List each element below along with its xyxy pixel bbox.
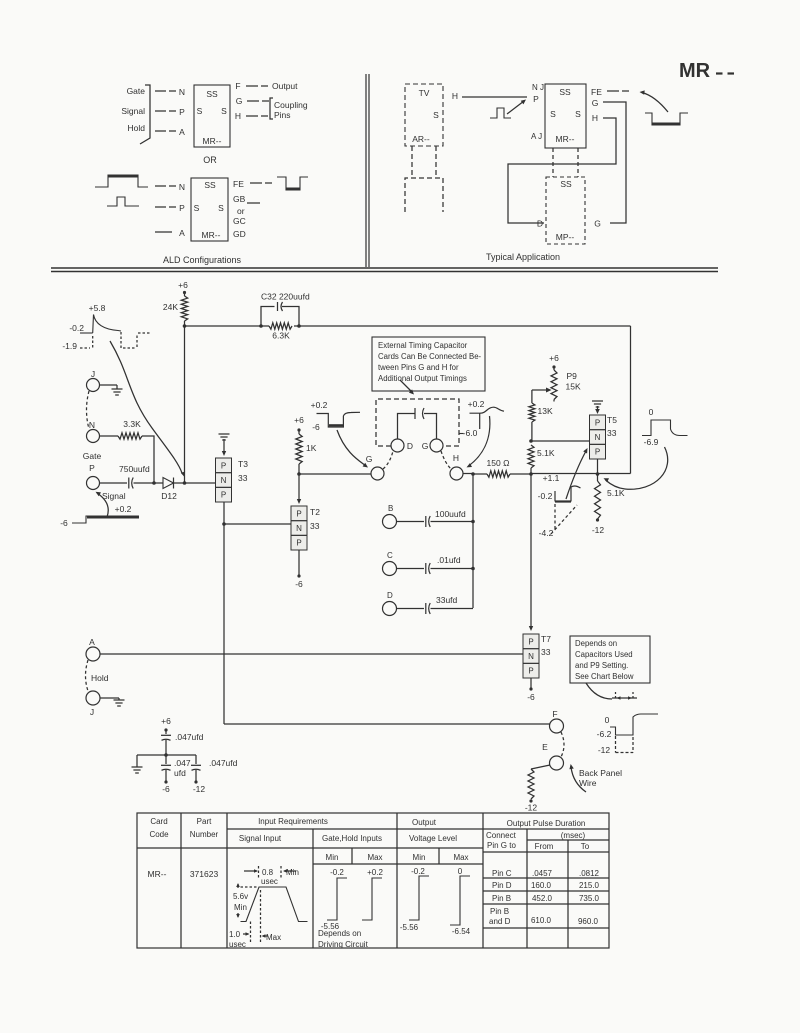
label Output (272, 81, 298, 91)
wire G to MP (603, 102, 626, 223)
svg-text:+5.8: +5.8 (89, 303, 106, 313)
svg-text:Input Requirements: Input Requirements (258, 817, 328, 826)
dashed link G to D (383, 451, 393, 469)
capacitor external (398, 408, 437, 439)
svg-text:33: 33 (541, 647, 551, 657)
pin F label (235, 81, 240, 91)
arrow into T2 (297, 474, 301, 504)
svg-text:From: From (535, 842, 554, 851)
svg-text:-6.54: -6.54 (452, 927, 471, 936)
svg-text:Signal: Signal (121, 106, 145, 116)
header from (535, 842, 554, 851)
wire dashes P1 (155, 110, 176, 112)
junction 150 node (529, 472, 533, 476)
svg-text:D: D (537, 219, 543, 229)
svg-text:T2: T2 (310, 507, 320, 517)
svg-text:AR--: AR-- (412, 134, 430, 144)
svg-text:MR--: MR-- (202, 230, 221, 240)
junction dot C32 right (297, 324, 301, 328)
svg-text:B: B (388, 504, 393, 513)
label OR (203, 155, 217, 165)
wire N to 3.3K (100, 435, 119, 437)
svg-text:FE: FE (591, 87, 602, 97)
pin D ext (391, 439, 413, 452)
svg-text:+6: +6 (549, 353, 559, 363)
svg-text:To: To (581, 842, 590, 851)
wire P to cap (100, 482, 128, 484)
header to (581, 842, 590, 851)
junction dot C32 left (259, 324, 263, 328)
svg-text:-0.2: -0.2 (411, 867, 425, 876)
header output (412, 818, 437, 827)
header connect pin g (486, 831, 517, 850)
dashed link A-J (86, 660, 89, 691)
wire dashes A1 (155, 130, 176, 132)
svg-text:6.3K: 6.3K (272, 331, 290, 341)
pin A label 2 (179, 228, 185, 238)
svg-text:15K: 15K (566, 382, 581, 392)
ground caps (132, 755, 143, 773)
svg-text:S: S (197, 106, 203, 116)
svg-text:.047: .047 (174, 758, 191, 768)
svg-text:-6: -6 (162, 784, 170, 794)
resistor 24K (163, 293, 188, 327)
svg-text:Part: Part (197, 817, 212, 826)
svg-text:C32 220uufd: C32 220uufd (261, 292, 310, 302)
block MP dashed box (546, 177, 585, 244)
svg-text:SS: SS (206, 89, 218, 99)
wire dashes N2 (155, 185, 176, 187)
capacitor C .01ufd (426, 555, 461, 574)
svg-text:P: P (221, 491, 226, 500)
waveform FE output pulse (277, 177, 308, 190)
svg-text:usec: usec (229, 940, 246, 949)
header gate hold inputs (322, 834, 382, 843)
pin J hold (86, 691, 100, 717)
svg-text:Depends on: Depends on (318, 929, 361, 938)
svg-text:A J: A J (531, 132, 542, 141)
resistor 150 ohm (473, 458, 531, 477)
label ALD Configurations (163, 255, 242, 265)
svg-text:Coupling: Coupling (274, 100, 308, 110)
svg-text:Min: Min (286, 868, 299, 877)
svg-text:-12: -12 (592, 525, 605, 535)
power +6 P9 (549, 353, 559, 369)
pin J (87, 369, 100, 392)
svg-text:tween Pins G and H for: tween Pins G and H for (378, 363, 459, 372)
pin GB label (233, 194, 246, 204)
wire T5 output rail (531, 473, 631, 475)
svg-text:Output: Output (272, 81, 298, 91)
wire dashes FE (250, 182, 272, 184)
capacitor .047 right (191, 755, 238, 794)
svg-text:T7: T7 (541, 634, 551, 644)
svg-text:H: H (592, 113, 598, 123)
waveform T5 out pulse (642, 407, 688, 447)
svg-text:TV: TV (419, 88, 430, 98)
wire cap to junction (134, 481, 162, 485)
svg-text:S: S (194, 203, 200, 213)
header min out (413, 853, 426, 862)
svg-text:G: G (366, 454, 373, 464)
svg-text:SS: SS (560, 179, 572, 189)
svg-text:.0457: .0457 (532, 869, 553, 878)
svg-text:Code: Code (149, 830, 169, 839)
arrow FE wave to pin (640, 90, 669, 112)
svg-text:-6.0: -6.0 (463, 428, 478, 438)
wire 24K down to diode node (183, 324, 187, 483)
svg-text:N: N (179, 87, 185, 97)
svg-text:P: P (595, 448, 600, 457)
dashed link F-E back panel (561, 732, 564, 757)
svg-text:Card: Card (150, 817, 167, 826)
svg-text:371623: 371623 (190, 869, 219, 879)
section divider horizontal double line (51, 268, 718, 272)
arrow signal to P (96, 492, 109, 517)
arrow spike to diode node (110, 341, 185, 477)
wire 1K node to G (299, 473, 371, 475)
resistor P9 tail (553, 400, 555, 402)
capacitor D 33ufd (426, 595, 458, 614)
svg-text:G: G (236, 96, 243, 106)
svg-text:See Chart Below: See Chart Below (575, 672, 634, 681)
junction H node (463, 472, 475, 476)
svg-text:Depends on: Depends on (575, 639, 617, 648)
svg-text:D: D (387, 591, 393, 600)
pin F (550, 709, 564, 733)
svg-text:J: J (91, 369, 95, 379)
svg-text:Gate: Gate (83, 451, 102, 461)
svg-text:S: S (550, 109, 556, 119)
svg-text:960.0: 960.0 (578, 917, 599, 926)
cell pin c row (492, 869, 600, 878)
wire capB to vertical (431, 520, 475, 524)
svg-text:S: S (433, 110, 439, 120)
pin E (542, 742, 563, 770)
wire BCD vertical (472, 474, 474, 608)
cell pin b and d row (489, 907, 599, 926)
pointer note to measure (586, 683, 612, 699)
arrow wave to H (467, 416, 490, 467)
waveform gate spike (62, 303, 151, 351)
svg-text:C: C (387, 551, 393, 560)
section divider vertical line (366, 74, 369, 267)
waveform T5 base step (538, 473, 581, 538)
pin A (86, 637, 100, 661)
transistor T3 (216, 458, 249, 502)
svg-text:-6.2: -6.2 (597, 729, 612, 739)
svg-text:Typical Application: Typical Application (486, 252, 560, 262)
svg-text:N: N (595, 433, 601, 442)
pin N label (179, 87, 185, 97)
svg-text:P9: P9 (567, 371, 578, 381)
arrow back panel (569, 764, 586, 792)
waveform N input pulse (95, 175, 148, 187)
wire dashes P2 (155, 206, 176, 208)
capacitor 750uufd (129, 478, 133, 489)
coupling pins bracket (270, 98, 273, 119)
svg-text:13K: 13K (538, 406, 553, 416)
svg-text:N: N (179, 182, 185, 192)
title MR-- (679, 60, 734, 82)
table waveform gate min (321, 868, 347, 931)
svg-text:H: H (235, 111, 241, 121)
pin H label app (452, 91, 458, 101)
svg-text:S: S (218, 203, 224, 213)
svg-text:Voltage Level: Voltage Level (409, 834, 457, 843)
svg-text:-12: -12 (525, 803, 538, 813)
dashed box external caps (376, 399, 459, 446)
svg-text:+6: +6 (178, 280, 188, 290)
svg-text:P: P (528, 667, 533, 676)
header voltage level (409, 834, 457, 843)
label C32 220uufd (261, 292, 310, 302)
wire T3 emitter down (222, 502, 226, 724)
svg-text:Additional Output Timings: Additional Output Timings (378, 374, 467, 383)
dashed link J-N (87, 391, 90, 429)
pin H (450, 453, 463, 480)
measure arrows (612, 692, 637, 700)
wire T3 to T2 base (224, 523, 291, 525)
label Coupling Pins (274, 100, 308, 120)
block lower dashed card (405, 178, 443, 212)
wire D to cap (397, 608, 425, 610)
svg-text:.047ufd: .047ufd (209, 758, 238, 768)
ground J hold (114, 698, 125, 706)
transistor T5 (590, 415, 618, 459)
svg-text:750uufd: 750uufd (119, 464, 150, 474)
svg-text:S: S (575, 109, 581, 119)
svg-text:SS: SS (204, 180, 216, 190)
pin A label (179, 127, 185, 137)
note box external timing (372, 337, 485, 391)
svg-text:+0.2: +0.2 (367, 868, 383, 877)
svg-text:33ufd: 33ufd (436, 595, 458, 605)
pin GD label (233, 229, 246, 239)
wire down to T7 (529, 474, 533, 631)
block MR SS box 2 (191, 178, 228, 241)
dashed link Gext to H (441, 451, 451, 469)
svg-text:P: P (528, 637, 533, 646)
arrow step to T5 (566, 448, 588, 499)
pin C (383, 551, 397, 576)
resistor 1K (296, 430, 317, 474)
arrow pulse to out node (604, 447, 668, 489)
label 750uufd (119, 464, 150, 474)
svg-text:33: 33 (607, 428, 617, 438)
resistor 13K (529, 403, 553, 441)
wire to F pin (224, 723, 550, 725)
svg-text:Pin B: Pin B (490, 907, 509, 916)
svg-text:Pin B: Pin B (492, 894, 511, 903)
svg-text:5.6v: 5.6v (233, 892, 248, 901)
wire B to cap (397, 521, 425, 523)
wire diode to T3 (174, 481, 216, 485)
pin FE label app (591, 87, 602, 97)
svg-text:Wire: Wire (579, 778, 597, 788)
svg-text:and D: and D (489, 917, 511, 926)
svg-text:-0.2: -0.2 (538, 491, 553, 501)
cell MR (148, 869, 167, 879)
wire T2 down (295, 550, 303, 589)
label D MP (537, 219, 543, 229)
svg-text:H: H (452, 91, 458, 101)
power +6 24K (178, 280, 188, 294)
junction 13K 5.1K (529, 439, 533, 443)
svg-text:3.3K: 3.3K (123, 419, 141, 429)
junction 1K node (297, 472, 301, 476)
wire J to ground (100, 384, 118, 386)
label NJ (532, 83, 544, 92)
pin N label 2 (179, 182, 185, 192)
svg-text:Back Panel: Back Panel (579, 768, 622, 778)
input bracket (140, 85, 150, 144)
label Hold (91, 673, 109, 683)
power +6 caps (161, 716, 171, 732)
svg-text:+0.2: +0.2 (115, 504, 132, 514)
svg-text:1K: 1K (306, 443, 317, 453)
svg-text:E: E (542, 742, 548, 752)
svg-text:A: A (179, 127, 185, 137)
svg-text:FE: FE (233, 179, 244, 189)
pin B (383, 504, 397, 529)
wire J to ground 2 (100, 697, 119, 699)
svg-text:ALD Configurations: ALD Configurations (163, 255, 242, 265)
table verticals (181, 813, 568, 948)
cell 371623 (190, 869, 219, 879)
resistor P9 15K (551, 367, 581, 400)
table text depends (318, 929, 369, 949)
wire dashes F (246, 85, 268, 87)
waveform small pulse (490, 108, 511, 118)
label Gate P (83, 451, 102, 473)
arrow into T5 (595, 409, 600, 414)
svg-text:100uufd: 100uufd (435, 509, 466, 519)
svg-text:160.0: 160.0 (531, 881, 552, 890)
svg-text:Max: Max (367, 853, 382, 862)
wire E to resistor (531, 765, 550, 769)
label back panel wire (579, 768, 622, 788)
arrow wave to G (337, 430, 368, 468)
wire AR to lower card dashed (412, 146, 436, 178)
svg-text:N J: N J (532, 83, 544, 92)
resistor 3.3K (118, 419, 142, 439)
label Gate (127, 86, 146, 96)
svg-text:Signal Input: Signal Input (239, 834, 282, 843)
capacitor B 100uufd (426, 509, 466, 527)
label or (237, 206, 245, 216)
label G MP (594, 219, 601, 229)
table waveform signal (229, 866, 308, 949)
svg-text:ufd: ufd (174, 768, 186, 778)
svg-text:+6: +6 (161, 716, 171, 726)
svg-text:Min: Min (234, 903, 247, 912)
wire capC to vertical (431, 567, 475, 571)
svg-text:0: 0 (458, 867, 463, 876)
svg-text:MP--: MP-- (556, 232, 575, 242)
pin P label 2 (179, 203, 185, 213)
svg-text:P: P (595, 418, 600, 427)
wire feedback vertical (630, 326, 632, 474)
svg-text:MR--: MR-- (556, 134, 575, 144)
svg-text:GD: GD (233, 229, 246, 239)
waveform P input pulse (107, 197, 139, 206)
capacitor .047ufd top (161, 730, 204, 755)
resistor 5.1K upper (528, 445, 555, 474)
pin H label app2 (592, 113, 598, 123)
label AJ (531, 132, 542, 141)
svg-text:-6: -6 (312, 422, 320, 432)
svg-text:D: D (407, 441, 413, 451)
pin P label (179, 107, 185, 117)
svg-text:Capacitors Used: Capacitors Used (575, 650, 633, 659)
svg-text:Min: Min (326, 853, 339, 862)
svg-text:Connect: Connect (486, 831, 517, 840)
resistor 6.3K (269, 323, 292, 341)
svg-text:P: P (296, 539, 301, 548)
ground J (112, 385, 123, 395)
svg-text:-5.56: -5.56 (400, 923, 419, 932)
svg-text:-12: -12 (598, 745, 611, 755)
svg-text:+0.2: +0.2 (311, 400, 328, 410)
arrow into T3 (222, 451, 226, 456)
svg-text:J: J (90, 707, 94, 717)
svg-text:Pin C: Pin C (492, 869, 512, 878)
svg-text:and P9 Setting.: and P9 Setting. (575, 661, 628, 670)
capacitor C32 (261, 302, 299, 326)
label Typical Application (486, 252, 560, 262)
svg-text:G: G (422, 441, 429, 451)
svg-text:Output Pulse Duration: Output Pulse Duration (507, 819, 586, 828)
header input requirements (258, 817, 328, 826)
svg-text:A: A (179, 228, 185, 238)
pin GC label (233, 216, 246, 226)
svg-text:-6: -6 (527, 692, 535, 702)
svg-text:Driving Circuit: Driving Circuit (318, 940, 369, 949)
wire A to T7 base (100, 653, 523, 655)
svg-text:P: P (296, 509, 301, 518)
label Signal (121, 106, 145, 116)
label Signal (102, 491, 126, 501)
svg-text:D12: D12 (161, 491, 177, 501)
svg-text:MR--: MR-- (203, 136, 222, 146)
wire T5 down (596, 459, 600, 476)
svg-text:usec: usec (261, 877, 278, 886)
svg-text:+0.2: +0.2 (468, 399, 485, 409)
svg-text:A: A (89, 637, 95, 647)
pin G (366, 454, 384, 480)
table waveform out min (400, 867, 429, 932)
svg-text:Hold: Hold (128, 123, 146, 133)
svg-text:N: N (89, 420, 95, 430)
arrow pulse to P (507, 100, 526, 115)
svg-text:T3: T3 (238, 459, 248, 469)
svg-text:(msec): (msec) (561, 831, 586, 840)
waveform H step (459, 399, 504, 438)
pin G ext (422, 439, 443, 452)
header signal input (239, 834, 282, 843)
svg-text:-0.2: -0.2 (330, 868, 344, 877)
cell pin d row (492, 881, 600, 890)
svg-text:24K: 24K (163, 302, 178, 312)
svg-text:P: P (533, 94, 539, 104)
svg-text:610.0: 610.0 (531, 916, 552, 925)
svg-text:P: P (179, 107, 185, 117)
resistor E -12 (525, 769, 538, 813)
svg-text:.0812: .0812 (579, 869, 600, 878)
cell pin b row (492, 894, 600, 903)
header max out (453, 853, 468, 862)
